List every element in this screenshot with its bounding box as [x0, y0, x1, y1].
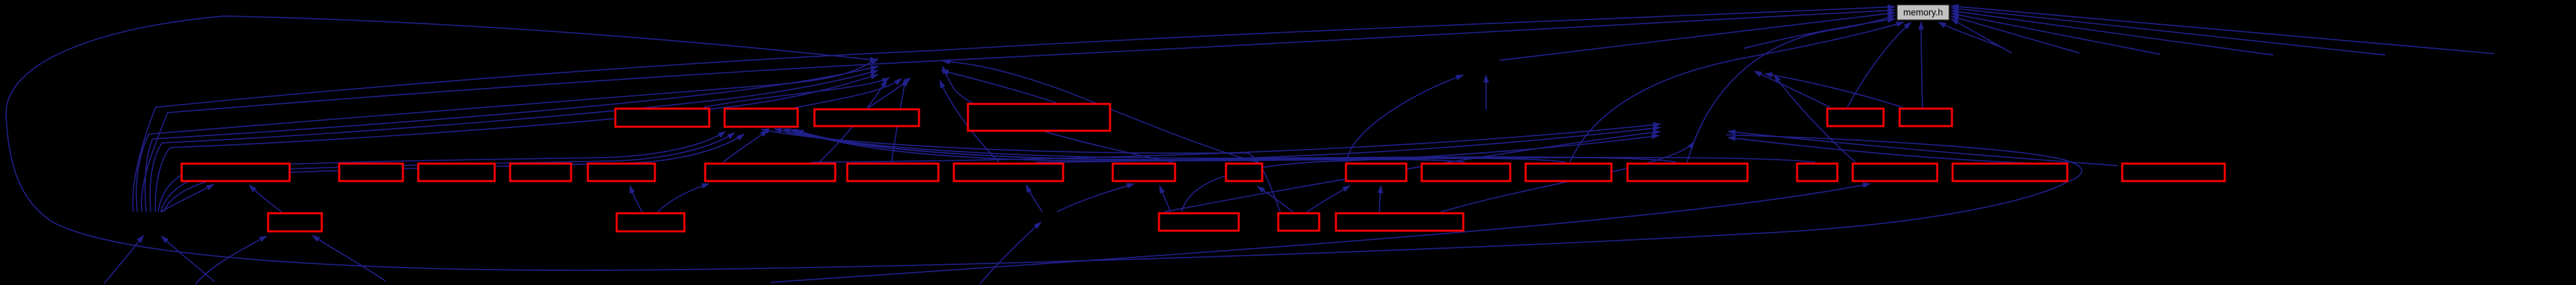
svg-text:memory.h: memory.h — [1903, 7, 1943, 17]
